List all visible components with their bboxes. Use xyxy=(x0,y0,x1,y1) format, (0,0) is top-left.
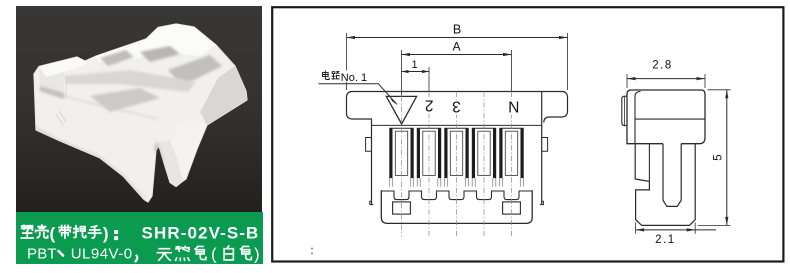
svg-text:(: ( xyxy=(211,245,217,264)
svg-text:A: A xyxy=(452,40,460,54)
svg-text:PBT: PBT xyxy=(27,245,57,262)
svg-text:No. 1: No. 1 xyxy=(341,72,367,84)
svg-text:N: N xyxy=(508,97,519,114)
svg-text:2.8: 2.8 xyxy=(652,60,673,72)
svg-text:5: 5 xyxy=(713,154,725,160)
svg-text:1: 1 xyxy=(411,59,417,71)
svg-text:(: ( xyxy=(50,224,56,243)
svg-text:SHR-02V-S-B: SHR-02V-S-B xyxy=(142,224,260,243)
svg-text:UL94V-0: UL94V-0 xyxy=(71,245,133,262)
svg-text:2.1: 2.1 xyxy=(655,234,676,246)
svg-text:2: 2 xyxy=(425,97,434,114)
svg-text:B: B xyxy=(453,23,461,37)
svg-text:): ) xyxy=(103,224,109,243)
svg-text:): ) xyxy=(254,245,260,264)
svg-text:3: 3 xyxy=(452,97,461,114)
